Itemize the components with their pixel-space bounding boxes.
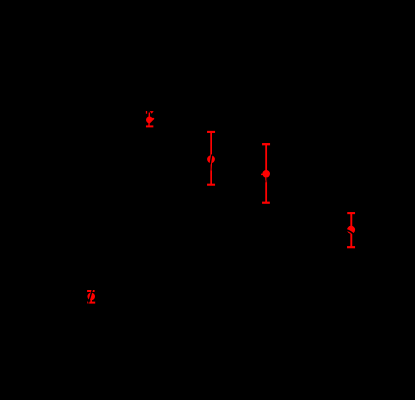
data point P4 errorbar (fourth cluster) xyxy=(262,144,270,203)
data point P3 marker xyxy=(207,155,215,163)
data point P5 errorbar (rightmost cluster) xyxy=(347,213,355,247)
data point P4 marker xyxy=(261,170,270,178)
data point P1 errorbar (leftmost cluster) xyxy=(87,291,95,303)
upper-limit caret triangle of P2 xyxy=(150,111,154,114)
data point P2 errorbar (second cluster) xyxy=(146,113,153,127)
black fit-line segment crossing P2 xyxy=(151,120,155,124)
black fit-line segment crossing P4 xyxy=(266,177,267,182)
black fit-line segment crossing P5 xyxy=(347,230,354,234)
data point P3 errorbar (middle cluster) xyxy=(207,132,215,185)
black fit-line segment crossing P1 xyxy=(88,289,93,305)
data point P1 marker xyxy=(87,293,95,301)
black fit-line segment crossing P3 xyxy=(210,155,212,171)
upper-limit caret tick of P2 xyxy=(146,111,148,114)
data point P2 marker xyxy=(146,117,154,124)
data point P5 marker xyxy=(347,226,355,234)
